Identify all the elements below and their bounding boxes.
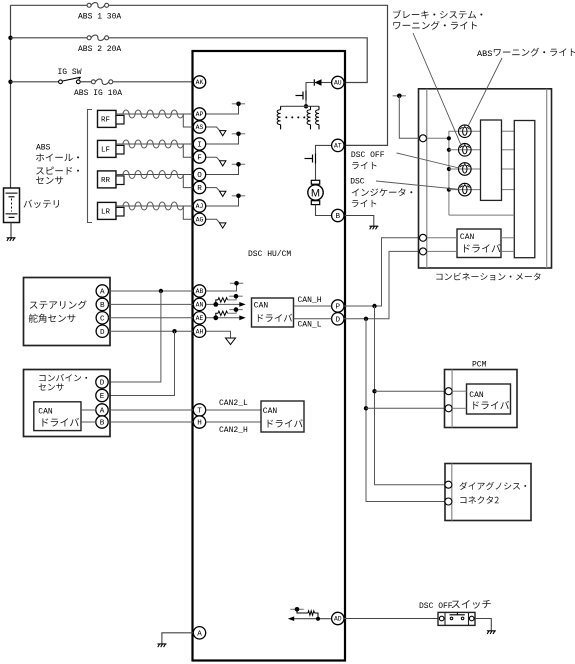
wire driver to mcu y149.8: [502, 149, 515, 151]
wire AN internal with arrow: [206, 303, 240, 305]
node supply tap AD: [290, 608, 303, 610]
svg-text:ABS 2 20A: ABS 2 20A: [78, 45, 121, 54]
pin combine E: [96, 389, 108, 401]
PCM connector strip: [451, 370, 453, 428]
pin F: [193, 151, 205, 163]
wire sensor LR to pin AG: [183, 206, 193, 219]
PCM connector pin CAN_L: [445, 405, 452, 412]
pin AD: [332, 612, 344, 624]
wire meter supply feed: [399, 96, 419, 139]
pin AB: [193, 285, 205, 297]
svg-text:AP: AP: [196, 111, 204, 118]
pin steering D: [96, 325, 108, 337]
wire pin AP internal to tap: [206, 104, 239, 114]
svg-text:AS: AS: [196, 124, 204, 131]
wire PCM CAN_H internal: [452, 390, 466, 392]
callout line DSC indicator light: [376, 181, 459, 189]
label combination meter: [436, 273, 540, 281]
fuse ABS IG 10A: [91, 79, 112, 84]
CAN driver U1 box: [252, 298, 294, 327]
wire pin AJ internal to tap: [206, 196, 239, 206]
svg-text:C: C: [100, 315, 105, 323]
label U2 doraiba: [42, 418, 79, 427]
wire meter CAN_H internal: [427, 237, 458, 239]
svg-text:E: E: [100, 393, 105, 401]
wire pin AS internal: [206, 127, 220, 130]
wire pin A to ground: [162, 633, 193, 644]
svg-text:LF: LF: [101, 147, 110, 155]
wire H internal: [206, 421, 261, 423]
ground battery: [7, 238, 16, 241]
combine sensor box: [24, 370, 111, 437]
fuse ABS 2 20A: [87, 35, 109, 40]
wire pin F internal: [206, 157, 220, 160]
diagnostic connector box: [445, 464, 531, 521]
wire steering C to AE: [109, 317, 194, 319]
svg-text:AH: AH: [196, 328, 204, 335]
node lamp bus junction y138.3: [447, 136, 451, 140]
diagnostic pin CAN_H: [445, 481, 452, 488]
node supply tap AB: [230, 282, 243, 284]
wire sensor RF to pin AS: [183, 114, 193, 127]
svg-text:CAN: CAN: [38, 408, 53, 417]
wire switch to fuse: [80, 81, 91, 83]
svg-text:DSC HU/CM: DSC HU/CM: [248, 250, 291, 259]
wire driver to mcu y169: [502, 168, 515, 170]
node supply tap AE: [229, 309, 242, 311]
node junction A wire: [159, 289, 163, 293]
svg-text:AG: AG: [196, 217, 204, 224]
wire twisted pair RR: [123, 171, 183, 179]
svg-text:A: A: [100, 289, 105, 297]
pin O: [193, 168, 205, 180]
solenoid valve coil V3: [316, 110, 319, 125]
sensor RF box: [98, 110, 117, 127]
pin AN: [193, 298, 205, 310]
wire meter CAN_L internal: [427, 250, 458, 252]
node junction rail/IG row: [8, 80, 12, 84]
svg-text:AJ: AJ: [196, 203, 204, 210]
node junction CAN_H: [372, 304, 376, 308]
wire motor to pin B: [316, 205, 332, 216]
pin steering B: [96, 298, 108, 310]
label brake system warning light: [393, 10, 482, 19]
pin R: [193, 181, 205, 193]
svg-text:P: P: [336, 304, 341, 312]
wire U2 to combine A: [81, 409, 96, 411]
ground arrow AH: [226, 338, 236, 345]
wire AB internal to tap: [206, 283, 237, 291]
pin AH: [193, 325, 205, 337]
transistor Q2 (motor driver FET): [305, 154, 316, 164]
battery: [4, 188, 20, 223]
sensor LR box: [98, 202, 117, 219]
CAN driver U3 box: [261, 401, 304, 432]
node valve rail junction: [304, 104, 308, 108]
svg-text:ABS: ABS: [477, 49, 492, 59]
svg-text:AU: AU: [334, 80, 342, 87]
resistor R1 (CAN term): [216, 300, 218, 305]
wire pin R internal: [206, 188, 220, 191]
wire PCM CAN_L internal: [452, 407, 466, 409]
wire junction to combine E: [109, 331, 175, 395]
pin AJ: [193, 200, 205, 212]
diode D1: [314, 79, 321, 85]
svg-text:I: I: [197, 142, 202, 150]
svg-text:H: H: [197, 420, 202, 428]
fuse ABS 1 30A: [87, 3, 109, 8]
wire steering D to AH: [109, 330, 194, 332]
pin steering C: [96, 312, 108, 324]
wire pin AG internal: [206, 219, 220, 222]
wire feed to lamp bus: [427, 137, 449, 139]
wire combine B to H (CAN2_H): [108, 421, 193, 423]
svg-text:T: T: [197, 408, 202, 416]
wire bus to lamp y169: [449, 168, 481, 170]
node lamp bus junction y189.6: [447, 188, 451, 192]
svg-text:AK: AK: [196, 79, 204, 86]
svg-text:O: O: [197, 172, 202, 180]
node junction rail/row2: [8, 36, 12, 40]
pin I: [193, 138, 205, 150]
ground arrow F: [220, 161, 226, 166]
wire junction to combine D: [109, 291, 161, 382]
svg-text:CAN: CAN: [460, 233, 475, 242]
wire combine A to T (CAN2_L): [108, 409, 193, 411]
label U1 doraiba: [258, 314, 292, 322]
CAN driver U5 box (PCM): [467, 384, 511, 414]
pin steering A: [96, 285, 108, 297]
sensor RR box: [98, 171, 117, 188]
svg-text:IG SW: IG SW: [58, 68, 82, 77]
pin H: [193, 416, 205, 428]
wire battery to ground: [10, 223, 12, 238]
label combine sensor: [40, 374, 88, 381]
pin AS: [193, 121, 205, 133]
svg-text:B: B: [100, 302, 105, 310]
label U4 doraiba: [464, 244, 501, 253]
svg-text:R: R: [197, 185, 202, 193]
wire valve rail: [281, 105, 319, 107]
callout line brake warning: [413, 33, 461, 145]
node junction AN: [213, 302, 218, 307]
svg-text:AE: AE: [196, 315, 204, 322]
wire U2 to combine B: [81, 421, 96, 423]
wire Q2 to motor: [315, 164, 317, 181]
label steering angle sensor: [30, 300, 87, 309]
DSC OFF switch SW1: [438, 612, 475, 625]
wire U1 to pin D (CAN_L): [294, 318, 332, 320]
DSC HU/CM unit box: [193, 51, 346, 661]
wire bus bottom to mcu: [449, 214, 514, 216]
pin AP: [193, 108, 205, 120]
meter connector pin CAN_L: [420, 248, 427, 255]
CAN driver U4 box (meter): [457, 229, 501, 258]
svg-text:AT: AT: [334, 143, 342, 150]
label U3 doraiba: [268, 419, 303, 427]
pin B: [332, 209, 344, 221]
wire battery B+ rail (left vertical): [10, 5, 12, 188]
motor M (ABS pump): [308, 180, 323, 204]
svg-text:D: D: [100, 329, 105, 337]
pin AT: [332, 139, 344, 151]
wire CAN_L from D: [344, 251, 419, 318]
node supply tap O: [232, 163, 245, 165]
meter connector pin CAN_H: [420, 234, 427, 241]
meter lamp driver block: [481, 120, 502, 200]
wire sensor RR to pin R: [183, 175, 193, 188]
svg-text:A: A: [100, 408, 105, 416]
svg-text:F: F: [197, 155, 202, 163]
wire diode to FET Q1: [306, 83, 314, 91]
pin T: [193, 404, 205, 416]
bracket sensor group: [88, 110, 93, 223]
node junction D wire: [172, 329, 176, 333]
pin AK: [193, 76, 205, 88]
svg-text:ABS: ABS: [36, 144, 51, 153]
ground DSC OFF switch: [487, 631, 496, 634]
node supply tap AJ: [232, 195, 245, 197]
lamp DSC OFF light: [459, 163, 472, 176]
wire AD to DSC OFF switch: [344, 618, 438, 620]
node junction AE: [213, 315, 218, 320]
wire IG row to switch: [11, 81, 59, 83]
wire T internal: [206, 409, 261, 411]
wire row2 fuse to AU: [109, 38, 368, 83]
callout line DSC OFF light: [397, 153, 459, 168]
wire lamp bus: [449, 131, 481, 215]
node lamp bus junction y169: [447, 167, 451, 171]
svg-text:LR: LR: [101, 209, 111, 217]
svg-text:A: A: [197, 630, 202, 638]
pin combine D: [96, 376, 108, 388]
PCM connector pin CAN_H: [445, 388, 452, 395]
wire twisted pair RF: [123, 110, 183, 118]
ground pin A: [158, 644, 167, 647]
svg-text:D: D: [100, 380, 105, 388]
ground pin B: [369, 226, 378, 229]
wire sensor RR to pin O: [116, 174, 193, 176]
pin A: [193, 627, 205, 639]
node supply tap I: [232, 133, 245, 135]
wire pin B to ground: [344, 216, 374, 226]
meter connector strip right: [546, 89, 548, 268]
solenoid valve coil V2: [307, 110, 310, 125]
label battery バッテリ: [24, 200, 60, 208]
wire bus to lamp y149.8: [449, 149, 481, 151]
pin AE: [193, 312, 205, 324]
wire fuse to pin AK: [113, 81, 194, 83]
meter connector pin power: [420, 135, 427, 142]
label U5 doraiba: [473, 401, 509, 409]
ground arrow AS: [220, 131, 226, 136]
wire sensor RF to pin AP: [116, 113, 193, 115]
wire switch to ground: [475, 619, 491, 631]
node junction CAN_H PCM: [372, 389, 376, 393]
wire row1 to fuse ABS1: [11, 4, 88, 6]
resistor R3 (AD pull-up): [297, 609, 308, 613]
combination meter box: [419, 89, 552, 268]
svg-text:CAN: CAN: [263, 407, 278, 416]
svg-text:RR: RR: [101, 177, 111, 185]
svg-text:CAN2_H: CAN2_H: [219, 426, 248, 435]
node junction CAN_L PCM: [364, 406, 368, 410]
svg-text:ABS IG 10A: ABS IG 10A: [74, 89, 122, 98]
svg-text:DSC OFF: DSC OFF: [419, 602, 453, 611]
wire driver to mcu y189.6: [502, 189, 515, 191]
wire CAN_L down to diagnostic: [366, 319, 445, 502]
svg-text:CAN2_L: CAN2_L: [219, 399, 248, 408]
svg-text:AD: AD: [334, 616, 342, 623]
lamp brake system warning light: [459, 144, 472, 157]
solenoid valve coil V1: [277, 110, 280, 125]
svg-text:CAN_L: CAN_L: [298, 320, 322, 329]
node junction AD pullup: [316, 617, 320, 621]
wire pin I internal to tap: [206, 134, 239, 144]
wire row1 fuse to corner: [109, 5, 388, 145]
wire steering B to AN: [109, 303, 194, 305]
wire steering A to AB: [109, 290, 194, 292]
node supply tap AP: [232, 103, 245, 105]
svg-text:CAN_H: CAN_H: [298, 296, 322, 305]
wire U1 to pin P (CAN_H): [294, 305, 332, 307]
wire bus to lamp y189.6: [449, 189, 481, 191]
node supply tap meter: [393, 95, 406, 97]
wire AT internal: [316, 145, 332, 153]
PCM box: [445, 370, 518, 428]
svg-text:CAN: CAN: [469, 391, 484, 400]
wire pin O internal to tap: [206, 164, 239, 174]
node supply tap AN: [229, 295, 242, 297]
diagnostic connector strip: [451, 464, 453, 521]
wire twisted pair LR: [123, 202, 183, 210]
ellipsis dots between valves: [285, 116, 305, 118]
wire CAN_L to PCM: [366, 407, 445, 409]
svg-text:RF: RF: [101, 117, 110, 125]
svg-text:DSC: DSC: [350, 178, 365, 187]
wire sensor LF to pin I: [116, 143, 193, 145]
svg-text:CAN: CAN: [254, 302, 269, 311]
ground arrow R: [220, 191, 226, 196]
svg-text:ABS 1 30A: ABS 1 30A: [78, 12, 121, 21]
meter connector strip left: [426, 89, 428, 268]
pin combine A: [96, 404, 108, 416]
meter mcu block: [514, 121, 535, 258]
svg-text:B: B: [336, 213, 341, 221]
svg-text:B: B: [100, 420, 105, 428]
lamp ABS warning light: [459, 125, 472, 138]
pin combine B: [96, 416, 108, 428]
wire CAN_H down to diagnostic: [375, 306, 445, 485]
CAN driver U2 box (combine): [34, 402, 81, 431]
svg-text:AN: AN: [196, 302, 204, 309]
transistor Q1 (valve driver FET): [296, 91, 307, 101]
svg-text:M: M: [311, 188, 320, 200]
wire row2 to fuse ABS2: [11, 37, 88, 39]
svg-text:D: D: [336, 316, 341, 324]
wire AU internal to diode: [322, 82, 332, 84]
sensor LF box: [98, 140, 117, 157]
pin D: [332, 313, 344, 325]
svg-text:AB: AB: [196, 288, 204, 295]
wire AE internal with arrow: [206, 317, 240, 319]
wire AH internal: [206, 331, 231, 338]
ground arrow AG: [220, 223, 226, 228]
diagnostic pin CAN_L: [445, 498, 452, 505]
switch IG SW: [59, 77, 81, 84]
svg-text:PCM: PCM: [472, 360, 487, 369]
pin P: [332, 300, 344, 312]
wire CAN_H to PCM: [375, 390, 446, 392]
wire CAN_H from P: [344, 238, 419, 306]
pin AG: [193, 213, 205, 225]
label diagnostic connector 2: [459, 482, 526, 490]
svg-text:DSC OFF: DSC OFF: [351, 151, 385, 160]
node lamp bus junction y149.8: [447, 148, 451, 152]
wire Q1 source to valve rail: [305, 101, 307, 107]
node junction CAN_L: [364, 317, 368, 321]
wire sensor LF to pin F: [183, 144, 193, 157]
wire driver to mcu y131.2: [502, 130, 515, 132]
wire sensor LR to pin AJ: [116, 205, 193, 207]
callout line ABS warning: [468, 58, 502, 126]
wire AD internal with arrow: [294, 618, 331, 620]
steering angle sensor box: [24, 278, 111, 346]
wire twisted pair LF: [123, 140, 183, 148]
lamp DSC indicator light: [459, 183, 472, 196]
pin AU: [332, 76, 344, 88]
resistor R2 (CAN term): [216, 313, 218, 318]
